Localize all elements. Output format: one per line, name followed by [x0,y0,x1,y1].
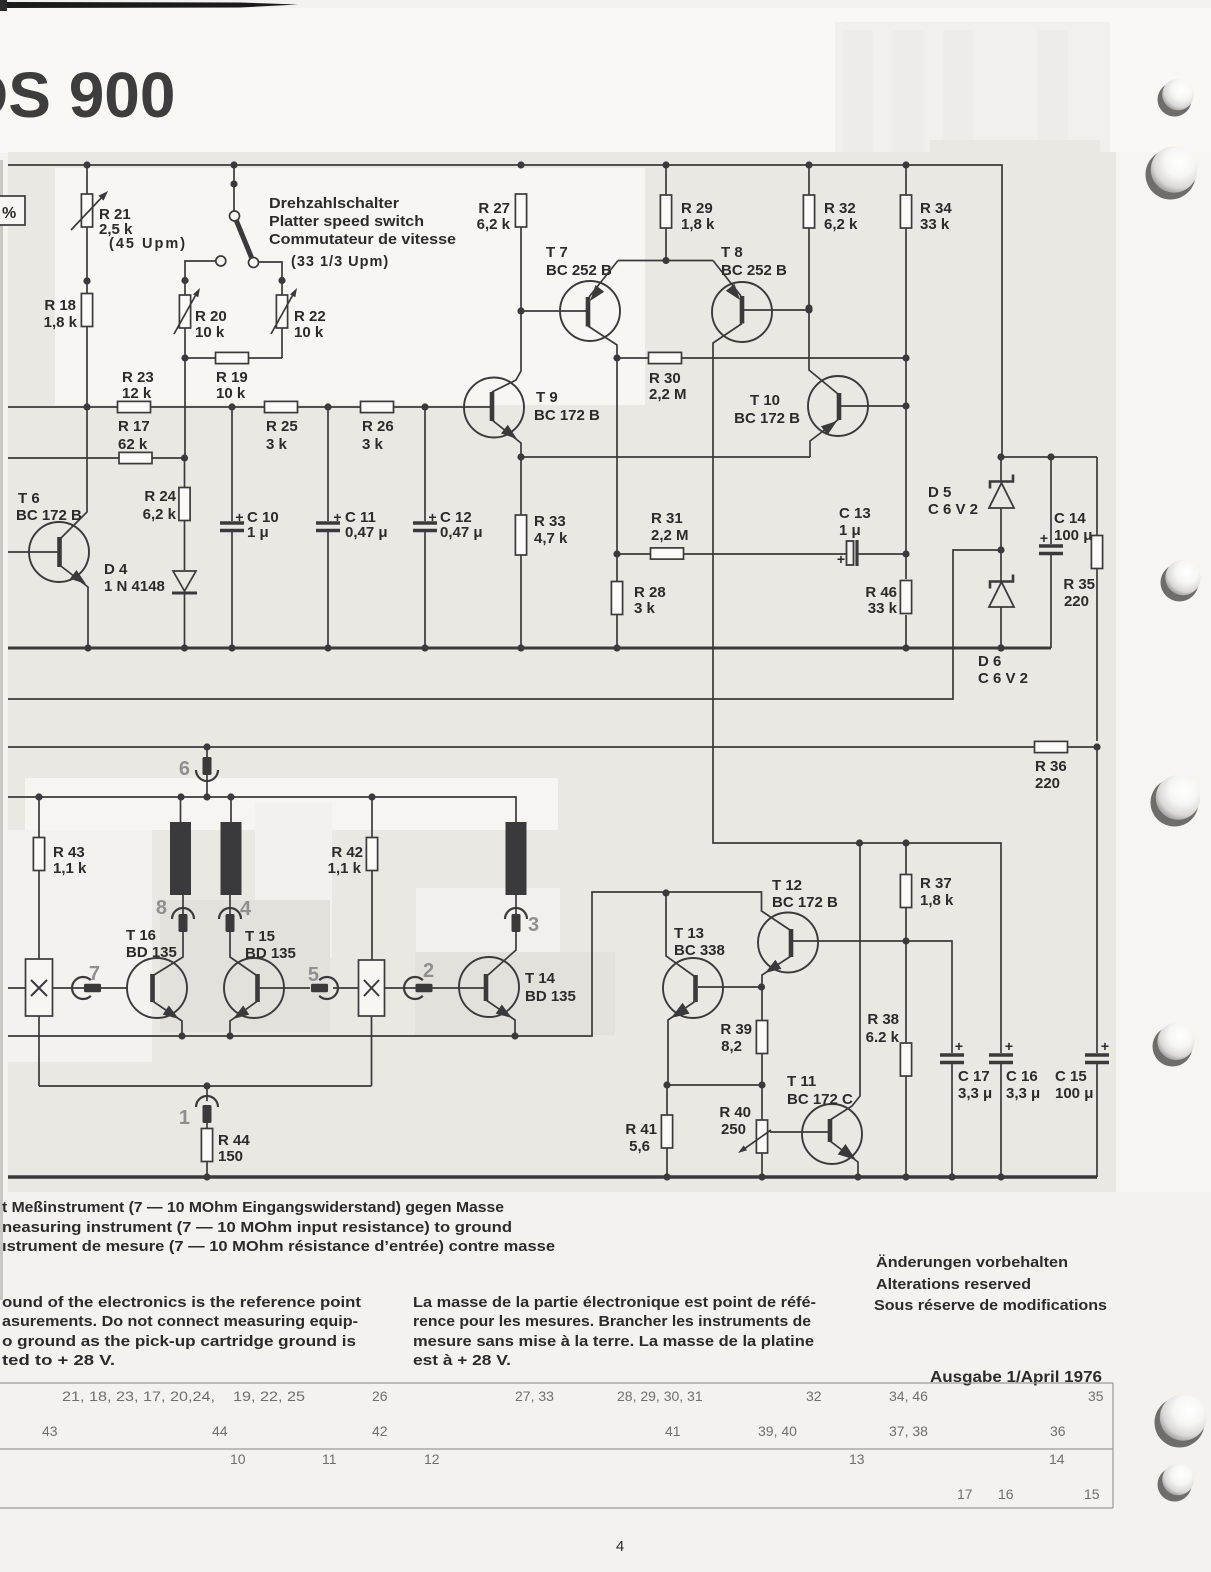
svg-text:R 28: R 28 [634,584,666,601]
svg-text:35: 35 [1088,1388,1104,1404]
svg-text:10 k: 10 k [216,385,246,402]
svg-text:BC 172 B: BC 172 B [16,507,82,524]
wire: emitter rail to T12 collector [8,889,790,1039]
svg-text:C 14: C 14 [1054,510,1086,527]
svg-text:T 7: T 7 [546,244,568,261]
transistor T11 BC172C [787,843,862,1177]
resistor R41 5,6 [625,1085,672,1177]
svg-text:220: 220 [1035,775,1060,792]
transistor T16 BD135 [126,927,187,1036]
svg-text:asurements. Do not connect mea: asurements. Do not connect measuring equ… [2,1313,358,1330]
motor winding W1 (crossed box) [8,959,53,1086]
svg-text:C 6 V 2: C 6 V 2 [978,670,1028,687]
svg-text:14: 14 [1049,1451,1065,1467]
svg-text:T 11: T 11 [787,1073,816,1090]
svg-text:R 37: R 37 [920,875,952,892]
resistor R46 33k [865,406,911,648]
svg-text:39, 40: 39, 40 [758,1423,797,1439]
connector pin 7 [53,963,128,999]
resistor R30 2,2M rail [613,352,909,403]
svg-text:21, 18, 23, 17, 20,24,: 21, 18, 23, 17, 20,24, [62,1388,215,1404]
svg-text:C 15: C 15 [1055,1068,1087,1085]
svg-text:R 26: R 26 [362,418,394,435]
svg-text:1 N 4148: 1 N 4148 [104,578,165,595]
svg-text:12: 12 [424,1451,440,1467]
svg-text:1 μ: 1 μ [839,522,861,539]
connector pin 3 [488,895,539,975]
svg-text:12 k: 12 k [122,385,152,402]
svg-text:ted to + 28 V.: ted to + 28 V. [2,1352,115,1369]
svg-text:5,6: 5,6 [629,1138,650,1155]
svg-text:est à + 28 V.: est à + 28 V. [413,1352,511,1369]
capacitor C 10 [220,407,279,648]
svg-text:R 41: R 41 [625,1121,657,1138]
svg-text:BC 252 B: BC 252 B [721,262,787,279]
svg-text:3 k: 3 k [362,436,384,453]
transistor T13 BC338 [663,893,762,1085]
svg-text:10: 10 [230,1451,246,1467]
svg-text:R 38: R 38 [867,1011,899,1028]
svg-text:%: % [2,205,16,222]
resistor R34 33k [900,165,952,410]
svg-text:R 22: R 22 [294,308,326,325]
svg-text:2,2 M: 2,2 M [649,386,687,403]
ground rail (lower heavy) [8,1173,1097,1180]
svg-text:C 17: C 17 [958,1068,990,1085]
svg-text:10 k: 10 k [294,324,324,341]
svg-text:100 μ: 100 μ [1054,527,1092,544]
svg-text:R 34: R 34 [920,200,952,217]
wire: T7 collector drop [613,358,620,582]
trimmer R40 250 [719,1104,828,1177]
svg-text:1: 1 [179,1107,190,1129]
svg-text:0,47 μ: 0,47 μ [440,524,483,541]
transistor T12 BC172B [758,877,910,1022]
svg-text:Commutateur de vitesse: Commutateur de vitesse [269,231,456,248]
svg-text:BC 252 B: BC 252 B [546,262,612,279]
capacitor C 12 [413,407,483,648]
svg-text:1 μ: 1 μ [247,524,269,541]
svg-text:BC 172 B: BC 172 B [734,410,800,427]
svg-text:+: + [955,1038,963,1054]
svg-text:44: 44 [212,1423,228,1439]
diode D4 1N4148 [104,561,197,648]
connector pin 8 [154,895,194,975]
svg-text:8: 8 [156,897,167,919]
transistor T14 BD135 [459,957,576,1036]
svg-text:R 44: R 44 [218,1132,250,1149]
wire: T9-T10 emitter link [521,456,810,458]
note: ground reference french [413,1294,816,1369]
capacitor C14 100u [1001,453,1097,648]
capacitor C17 3,3u [906,941,992,1177]
svg-text:26: 26 [372,1388,388,1404]
transistor T8 BC252B [712,244,1001,1053]
resistor R39 8,2 [720,1021,767,1121]
svg-text:1,8 k: 1,8 k [681,216,715,233]
svg-text:36: 36 [1050,1423,1066,1439]
svg-text:42: 42 [372,1423,388,1439]
top black bar [0,0,298,11]
component location table [0,1383,1113,1508]
resistor R17 62k rail [8,418,188,464]
svg-text:R 39: R 39 [720,1021,752,1038]
connector pin 2 [385,960,460,999]
note: measurement note (3 languages, cut at left) [2,1199,555,1255]
svg-text:13: 13 [849,1451,865,1467]
svg-text:BC 172 B: BC 172 B [772,894,838,911]
svg-text:0,47 μ: 0,47 μ [345,524,388,541]
svg-text:43: 43 [42,1423,58,1439]
capacitor C 11 [316,407,388,648]
svg-text:T 13: T 13 [674,925,704,942]
resistor R31 2,2M [617,510,846,559]
svg-text:R 24: R 24 [144,488,176,505]
svg-text:D 4: D 4 [104,561,128,578]
svg-text:T 15: T 15 [245,928,275,945]
svg-text:R 29: R 29 [681,200,713,217]
connector pin 5 [308,964,359,999]
svg-text:3 k: 3 k [266,436,288,453]
svg-text:27, 33: 27, 33 [515,1388,554,1404]
resistor R35 220 [1063,457,1102,741]
zener diode D5 C6V2 [928,453,1014,553]
svg-text:(45 Upm): (45 Upm) [109,236,187,252]
svg-text:+: + [1005,1038,1013,1054]
percent box at left edge [0,196,25,225]
svg-text:BD 135: BD 135 [525,988,576,1005]
transistor T7 BC252B [546,244,620,358]
resistor R29 1,8k [660,165,715,264]
svg-text:6: 6 [179,758,190,780]
motor winding W2 (crossed box) [359,960,385,1086]
svg-text:T 12: T 12 [772,877,802,894]
capacitor C13 1u [837,505,910,567]
svg-text:o ground as the pick-up cartri: o ground as the pick-up cartridge ground… [2,1333,356,1350]
svg-text:17: 17 [957,1486,973,1502]
issue date [930,1369,1102,1386]
svg-text:16: 16 [998,1486,1014,1502]
svg-text:Änderungen vorbehalten: Änderungen vorbehalten [876,1254,1068,1271]
resistor R42 1,1k [328,797,378,960]
svg-text:220: 220 [1064,593,1089,610]
svg-text:28, 29, 30, 31: 28, 29, 30, 31 [617,1388,703,1404]
svg-text:33 k: 33 k [920,216,950,233]
svg-text:R 40: R 40 [719,1104,751,1121]
resistor R27 6,2k [477,194,527,233]
svg-text:D 5: D 5 [928,484,951,501]
connector pin 1 [179,1086,218,1129]
svg-text:C 13: C 13 [839,505,871,522]
svg-text:mesure sans mise à la terre. L: mesure sans mise à la terre. La masse de… [413,1333,814,1350]
wire: T13 emitter link [663,1081,762,1088]
transistor T9 BC172B [464,227,600,461]
svg-text:+: + [428,509,436,525]
svg-text:4: 4 [616,1538,624,1555]
zener diode D6 C6V2 [978,550,1028,687]
svg-text:R 32: R 32 [824,200,856,217]
svg-text:5: 5 [308,964,319,986]
svg-text:62 k: 62 k [118,436,148,453]
potentiometer R21 2,5k [71,165,133,294]
motor coil L2 [221,797,242,895]
svg-text:+: + [837,551,845,567]
svg-text:T 10: T 10 [750,392,780,409]
svg-text:BC 338: BC 338 [674,942,725,959]
switch labels [109,195,456,270]
svg-text:R 46: R 46 [865,584,897,601]
note: alterations reserved block [874,1254,1107,1314]
motor coil L3 [506,822,527,895]
resistor R36 220 rail [8,741,1101,792]
svg-text:3 k: 3 k [634,600,656,617]
svg-text:BC 172 B: BC 172 B [534,407,600,424]
svg-text:7: 7 [89,963,100,985]
svg-text:+: + [333,509,341,525]
svg-text:T 6: T 6 [18,490,40,507]
capacitor C15 100u [1055,747,1109,1177]
svg-text:R 36: R 36 [1035,758,1067,775]
svg-text:T 8: T 8 [721,244,743,261]
resistor R43 1,1k [33,797,87,959]
wire: T7/T8 emitter rail [618,260,713,262]
svg-text:6,2 k: 6,2 k [824,216,858,233]
svg-text:neasuring instrument (7 — 10 M: neasuring instrument (7 — 10 MOhm input … [2,1219,512,1236]
resistor R44 150 [201,1129,250,1178]
svg-text:1,8 k: 1,8 k [920,892,954,909]
wire: +28V top bus with right drop to D5 node [8,161,1002,457]
svg-text:R 20: R 20 [195,308,227,325]
svg-text:T 9: T 9 [536,389,558,406]
svg-text:rence pour les mesures. Branch: rence pour les mesures. Brancher les ins… [413,1313,811,1330]
svg-text:3: 3 [528,914,539,936]
svg-text:R 25: R 25 [266,418,298,435]
resistor R18 1,8k [44,294,93,408]
resistor R19 10k [181,352,282,402]
ground rail (upper) [8,644,1051,651]
resistor R37 1,8k [900,843,954,941]
svg-text:R 19: R 19 [216,369,248,386]
svg-text:R 43: R 43 [53,844,85,861]
svg-text:ıstrument de mesure (7 — 10 MO: ıstrument de mesure (7 — 10 MOhm résista… [2,1238,555,1255]
svg-text:37, 38: 37, 38 [889,1423,928,1439]
resistor R33 4,7k [515,457,568,648]
svg-text:Platter speed switch: Platter speed switch [269,213,424,230]
svg-text:15: 15 [1084,1486,1100,1502]
page number [616,1538,624,1555]
resistor R28 3k [611,582,665,649]
svg-text:R 23: R 23 [122,369,154,386]
wire: R20 junction down to R17 node [184,358,186,458]
svg-text:R 35: R 35 [1063,576,1095,593]
svg-text:32: 32 [806,1388,822,1404]
svg-text:T 14: T 14 [525,970,556,987]
resistor R25 3k label [266,418,298,453]
svg-text:R 27: R 27 [478,200,510,217]
svg-text:41: 41 [665,1423,681,1439]
svg-text:3,3 μ: 3,3 μ [1006,1085,1040,1102]
transistor T10 BC172B [734,308,906,457]
transistor T6 BC172B [8,407,89,648]
svg-text:T 16: T 16 [126,927,156,944]
svg-text:34, 46: 34, 46 [889,1388,928,1404]
svg-text:C 16: C 16 [1006,1068,1038,1085]
svg-text:4,7 k: 4,7 k [534,530,568,547]
svg-text:DS 900: DS 900 [0,59,175,131]
resistor R24 6,2k [143,458,190,570]
resistor R32 6,2k [803,165,858,312]
platter speed switch S (Drehzahlschalter) [181,165,285,284]
wire: D6 bypass to ground rail [8,550,1001,699]
svg-text:BD 135: BD 135 [126,944,177,961]
svg-text:1,1 k: 1,1 k [53,860,87,877]
svg-text:11: 11 [322,1451,337,1467]
svg-text:1,8 k: 1,8 k [44,314,78,331]
svg-text:R 18: R 18 [44,297,76,314]
svg-text:+: + [1101,1038,1109,1054]
wire: T7 base from R27 node [521,310,586,312]
svg-text:R 17: R 17 [118,418,150,435]
svg-text:(33 1/3 Upm): (33 1/3 Upm) [291,254,389,270]
svg-text:8,2: 8,2 [721,1038,742,1055]
svg-text:R 42: R 42 [331,844,363,861]
svg-text:2: 2 [423,960,434,982]
wire: winding center link [39,1082,372,1089]
svg-text:6,2 k: 6,2 k [143,506,177,523]
binder hole shadows [1146,79,1207,1502]
svg-text:+: + [235,509,243,525]
svg-text:R 30: R 30 [649,370,681,387]
svg-text:6.2 k: 6.2 k [866,1029,900,1046]
resistor R26 3k label [362,418,394,453]
capacitor C16 3,3u [989,1038,1040,1177]
motor coil L1 [170,797,191,895]
header title DS 900 (cut at left edge) [0,59,175,131]
resistor R23 12k rail [8,369,492,413]
svg-text:6,2 k: 6,2 k [477,216,511,233]
svg-text:BC 172 C: BC 172 C [787,1091,853,1108]
svg-text:33 k: 33 k [868,600,898,617]
connector pin 6 [179,747,218,797]
svg-text:C 6 V 2: C 6 V 2 [928,501,978,518]
svg-text:La masse de la partie électron: La masse de la partie électronique est p… [413,1294,816,1311]
wire: lower section supply rail [8,793,516,822]
connector pin 4 [219,895,256,975]
svg-text:D 6: D 6 [978,653,1001,670]
svg-text:250: 250 [721,1121,746,1138]
svg-text:10 k: 10 k [195,324,225,341]
svg-text:150: 150 [218,1148,243,1165]
svg-text:Alterations reserved: Alterations reserved [876,1276,1031,1293]
svg-text:3,3 μ: 3,3 μ [958,1085,992,1102]
svg-text:ound of the electronics is the: ound of the electronics is the reference… [2,1294,361,1311]
svg-text:4: 4 [240,898,252,920]
svg-text:R 33: R 33 [534,513,566,530]
svg-text:100 μ: 100 μ [1055,1085,1093,1102]
svg-text:Drehzahlschalter: Drehzahlschalter [269,195,399,212]
resistor R38 6,2k [866,941,912,1177]
transistor T15 BD135 [224,928,310,1036]
svg-text:Sous réserve de modifications: Sous réserve de modifications [874,1297,1107,1314]
svg-text:t Meßinstrument (7 — 10 MOhm E: t Meßinstrument (7 — 10 MOhm Eingangswid… [2,1199,504,1216]
svg-text:+: + [1040,530,1048,546]
trimmer R22 10k [271,281,326,359]
svg-text:19, 22, 25: 19, 22, 25 [233,1388,305,1404]
trimmer R20 10k [174,281,227,359]
svg-text:2,2 M: 2,2 M [651,527,689,544]
note: ground reference english (cut at left) [2,1294,361,1369]
svg-text:R 31: R 31 [651,510,683,527]
svg-text:BD 135: BD 135 [245,945,296,962]
svg-text:1,1 k: 1,1 k [328,860,362,877]
